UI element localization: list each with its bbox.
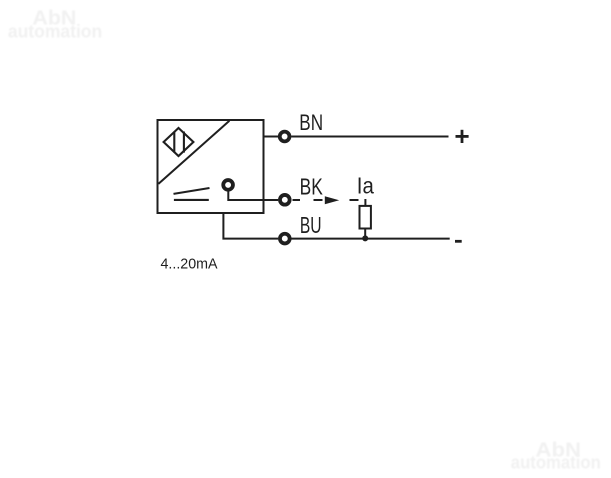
diagonal divider inside sensor box bbox=[158, 121, 229, 184]
terminal BK bbox=[280, 195, 290, 205]
wire from internal terminal down and right to BK pin bbox=[228, 191, 278, 200]
svg-text:Ia: Ia bbox=[357, 173, 374, 199]
svg-text:BU: BU bbox=[300, 212, 322, 238]
terminal BU bbox=[280, 234, 290, 244]
dashed current path from BK bbox=[293, 199, 359, 201]
wire BU from box bottom bbox=[223, 213, 278, 239]
junction dot on BU line bbox=[362, 235, 368, 241]
minus sign bbox=[455, 240, 462, 243]
current direction arrowhead bbox=[325, 196, 339, 204]
terminal BN bbox=[280, 132, 290, 142]
svg-text:BN: BN bbox=[299, 110, 323, 135]
adjustment slant line inside box bbox=[174, 188, 210, 194]
sensor box U1 bbox=[158, 120, 264, 213]
internal output terminal circle bbox=[223, 180, 233, 190]
inductive sensor diamond symbol bbox=[164, 128, 194, 156]
plus sign bbox=[456, 130, 469, 143]
wire BN to plus bbox=[291, 136, 448, 138]
svg-text:automation: automation bbox=[511, 452, 601, 473]
svg-text:BK: BK bbox=[300, 173, 323, 199]
wire BU to minus bbox=[291, 238, 450, 240]
wire down to load resistor bbox=[364, 199, 366, 207]
load resistor bbox=[360, 206, 371, 229]
svg-text:4...20mA: 4...20mA bbox=[161, 256, 218, 273]
wire resistor to BU line bbox=[364, 228, 366, 239]
svg-text:automation: automation bbox=[8, 20, 102, 41]
horizontal line under slant bbox=[174, 199, 209, 201]
wire BN from box to terminal bbox=[264, 136, 279, 138]
